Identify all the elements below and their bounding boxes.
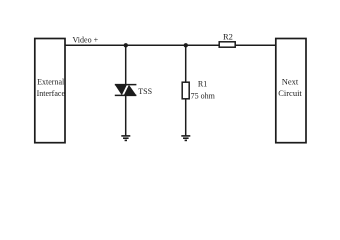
node B: junction of R1 branch with Video+ wire xyxy=(184,43,188,47)
svg-text:R1: R1 xyxy=(198,80,207,89)
svg-text:75 ohm: 75 ohm xyxy=(191,92,216,101)
svg-text:External: External xyxy=(37,77,65,86)
svg-text:TSS: TSS xyxy=(138,87,152,96)
svg-text:Interface: Interface xyxy=(37,89,66,98)
svg-text:Next: Next xyxy=(282,76,299,86)
svg-text:Video +: Video + xyxy=(73,35,99,44)
svg-text:R2: R2 xyxy=(223,32,233,42)
ground: below R1 xyxy=(181,136,190,141)
ground: below TSS xyxy=(121,136,130,141)
wire: TSS branch vertical upper xyxy=(125,45,127,85)
node A: junction of TSS branch with Video+ wire xyxy=(124,43,128,47)
resistor R2 xyxy=(219,42,235,47)
svg-text:Circuit: Circuit xyxy=(278,88,302,98)
wire: R1 branch vertical xyxy=(185,45,187,135)
resistor R1 75 ohm xyxy=(182,82,189,99)
wire: TSS branch vertical lower xyxy=(125,95,127,135)
block: External Interface xyxy=(35,39,66,143)
block: Next Circuit xyxy=(276,39,306,143)
wire: Video+ net from External Interface to Next Circuit xyxy=(65,44,276,46)
TSS bidirectional suppressor xyxy=(115,85,137,96)
